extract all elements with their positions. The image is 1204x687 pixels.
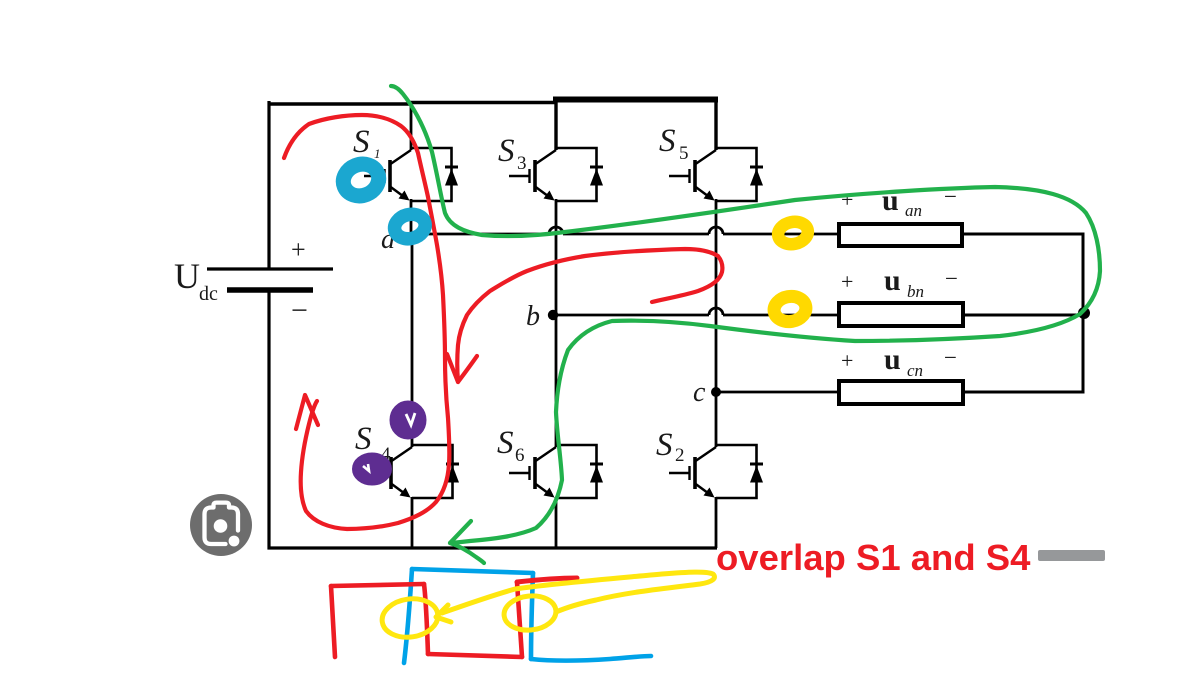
yellow highlight on phase a wire xyxy=(776,219,810,247)
svg-text:c: c xyxy=(693,377,706,408)
node n neutral junction dot xyxy=(1078,307,1090,319)
wire negative DC bus (bottom) xyxy=(268,546,718,549)
purple highlight above S4 collector xyxy=(391,402,426,439)
sketch red S1 gate waveform xyxy=(331,586,335,657)
svg-text:6: 6 xyxy=(515,445,525,466)
node b junction dot xyxy=(548,310,558,320)
wire neutral vertical xyxy=(1082,233,1085,394)
transistor S6 xyxy=(509,445,603,498)
svg-text:u: u xyxy=(884,343,901,376)
battery Udc negative plate xyxy=(227,287,313,293)
wire leg C lower (S2 branch) xyxy=(715,392,718,447)
wire leg A lower (S4 branch) xyxy=(411,234,414,447)
transistor S4 xyxy=(365,445,459,498)
wire positive DC bus thick segment xyxy=(553,97,718,103)
resistor load u_an xyxy=(839,224,962,246)
svg-text:+: + xyxy=(841,187,853,212)
yellow highlight on phase b wire xyxy=(772,294,808,324)
annotation red loop with down arrow xyxy=(457,249,722,381)
wire phase a with crossover hops xyxy=(411,233,549,236)
sketch yellow arrowhead xyxy=(436,605,451,622)
wire load output stubs to neutral xyxy=(962,233,1085,236)
sketch yellow overlap circle 2 xyxy=(502,593,557,632)
svg-text:dc: dc xyxy=(199,283,218,305)
svg-text:S: S xyxy=(353,124,370,160)
wire leg A upper (S1 branch) xyxy=(410,101,413,150)
svg-text:b: b xyxy=(526,301,540,332)
cyan highlight on S1 gate xyxy=(339,159,384,201)
svg-text:5: 5 xyxy=(679,143,689,164)
wire leg C upper (S5 branch) xyxy=(714,101,717,150)
svg-text:S: S xyxy=(355,421,372,457)
svg-text:−: − xyxy=(945,266,958,291)
svg-text:S: S xyxy=(497,425,514,461)
sketch yellow lasso to text xyxy=(442,572,714,613)
resistor load u_bn xyxy=(839,303,963,326)
svg-text:overlap S1 and S4: overlap S1 and S4 xyxy=(716,537,1031,578)
svg-text:3: 3 xyxy=(517,153,527,174)
google lens camera icon xyxy=(190,494,252,556)
transistor S1 xyxy=(364,148,458,201)
svg-text:S: S xyxy=(659,123,676,159)
transistor S3 xyxy=(509,148,603,201)
sketch yellow overlap circle 1 xyxy=(380,595,441,640)
svg-text:an: an xyxy=(905,201,922,220)
wire phase b with crossover hop xyxy=(556,314,709,317)
svg-text:−: − xyxy=(291,294,308,327)
wire battery negative lead xyxy=(267,291,270,550)
svg-text:S: S xyxy=(498,133,515,169)
node c junction dot xyxy=(711,387,721,397)
annotation red current path through S1/S4 loop xyxy=(284,115,449,529)
annotation green arrowhead xyxy=(450,521,471,543)
resistor load u_cn xyxy=(839,381,963,404)
svg-text:S: S xyxy=(656,427,673,463)
svg-text:+: + xyxy=(841,348,853,373)
battery Udc positive plate xyxy=(207,267,333,270)
wire positive DC bus (top) xyxy=(268,102,413,106)
svg-text:cn: cn xyxy=(907,361,923,380)
svg-text:+: + xyxy=(841,269,853,294)
svg-text:+: + xyxy=(291,235,306,264)
transistor S5 xyxy=(669,148,763,201)
cyan highlight on node a xyxy=(392,211,428,242)
svg-text:1: 1 xyxy=(374,146,381,161)
wire phase c xyxy=(716,391,840,394)
annotation red up arrowhead xyxy=(296,395,318,429)
gray dash marker xyxy=(1038,550,1105,561)
wire battery positive lead xyxy=(267,101,270,268)
sketch blue S4 gate waveform xyxy=(404,569,412,663)
svg-text:bn: bn xyxy=(907,282,924,301)
wire leg B upper (S3 branch) xyxy=(554,101,557,150)
annotation green current-path loop xyxy=(391,86,1100,543)
svg-text:−: − xyxy=(944,345,957,370)
svg-text:2: 2 xyxy=(675,445,685,466)
purple highlight on S4 gate xyxy=(353,454,391,485)
svg-text:u: u xyxy=(884,264,901,297)
svg-text:u: u xyxy=(882,184,899,217)
svg-text:U: U xyxy=(174,256,200,296)
wire leg B lower (S6 branch) xyxy=(555,315,558,447)
transistor S2 xyxy=(669,445,763,498)
